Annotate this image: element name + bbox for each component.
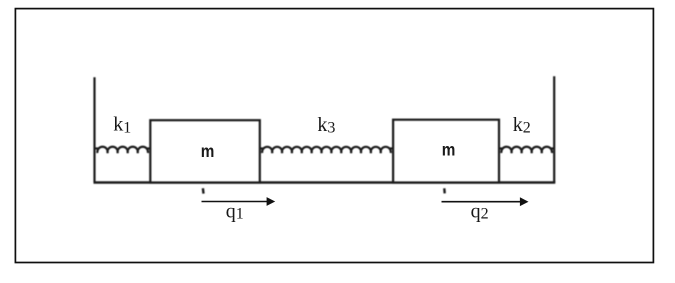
svg-text:q2: q2 — [471, 200, 489, 222]
svg-text:m: m — [201, 142, 215, 161]
arrow q1 — [202, 197, 276, 206]
svg-text:q1: q1 — [226, 201, 244, 223]
svg-text:m: m — [442, 141, 456, 160]
spring k3 — [260, 147, 393, 153]
svg-text:k1: k1 — [113, 114, 131, 137]
spring k1 — [95, 147, 150, 153]
left wall — [93, 77, 95, 182]
mass box m (right) — [393, 120, 499, 183]
tick mark above q1 arrow — [202, 188, 205, 193]
floor (ground line) — [94, 181, 556, 183]
spring k2 — [499, 147, 554, 153]
svg-text:k2: k2 — [513, 114, 531, 137]
right wall — [553, 76, 555, 182]
mass box m (left) — [150, 120, 259, 182]
svg-text:k3: k3 — [317, 114, 335, 137]
arrow q2 — [442, 197, 529, 206]
tick mark above q2 arrow — [443, 188, 446, 193]
